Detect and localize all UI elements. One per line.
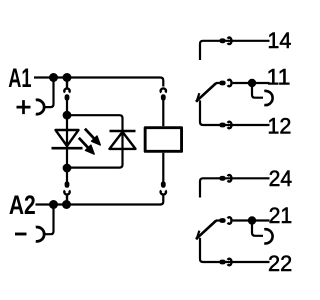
LED arrow 2 [79, 138, 94, 154]
plug connector socket (coil top) [161, 89, 166, 93]
plus sign [17, 100, 31, 114]
clamp terminal at A2 [36, 227, 44, 241]
svg-text:14: 14 [267, 28, 291, 53]
plug connector pin (line 22) [222, 260, 224, 265]
plug connector pin (coil bottom) [161, 184, 166, 186]
contact arm 11 [196, 83, 216, 102]
plug connector pin (line 24) [222, 176, 224, 181]
plug connector pin (line 12) [222, 123, 224, 128]
plug connector pin (line 21) [222, 218, 224, 223]
wire A1 dot1 down to clamp [44, 78, 53, 108]
plug connector pin (LED branch top) [65, 97, 70, 99]
svg-text:22: 22 [268, 251, 292, 276]
wire LED branch vertical [66, 99, 68, 182]
contact arm pivot tick [197, 93, 200, 102]
svg-text:12: 12 [267, 113, 291, 138]
plug connector pin (line 11) [222, 81, 224, 86]
wire contact 21 common line [216, 219, 270, 221]
junction dot line 21 [248, 216, 256, 224]
plug connector socket (line 14) [228, 37, 232, 44]
junction dot LED bottom [63, 164, 72, 173]
diode D2 cathode bar [110, 130, 136, 133]
minus sign [15, 233, 27, 236]
LED arrow 1 [85, 129, 100, 145]
wire 21 dot to clamp [252, 221, 263, 236]
svg-text:24: 24 [269, 166, 293, 191]
wire contact 22 line with stub [200, 238, 270, 262]
wire contact 24 line with stub [200, 178, 270, 197]
plug connector pin (coil top) [161, 97, 166, 99]
junction dot A2/clamp [49, 200, 58, 209]
wire A1 line to coil branch corner [34, 78, 163, 87]
junction dot A1/LED branch [63, 73, 72, 82]
svg-text:11: 11 [267, 65, 291, 90]
plug connector socket (LED branch bottom) [64, 190, 69, 204]
plug connector socket (line 21) [228, 217, 232, 224]
contact arm pivot tick (21) [197, 231, 200, 240]
plug connector pin (line 14) [222, 38, 224, 43]
junction dot A1/clamp [49, 73, 58, 82]
junction dot LED top [63, 111, 72, 120]
svg-text:A2: A2 [9, 190, 36, 220]
diode D2 triangle [110, 132, 136, 149]
LED D1 triangle [56, 130, 79, 146]
wire A2 line [36, 203, 162, 205]
wire 11 dot to clamp [252, 83, 263, 98]
svg-text:21: 21 [269, 203, 293, 228]
relay coil K1 [145, 128, 181, 152]
LED D1 cathode bar [52, 147, 83, 150]
junction dot line 11 [248, 79, 256, 87]
plug connector socket (line 12) [228, 122, 232, 129]
plug connector socket (line 24) [228, 175, 232, 182]
clamp terminal at 21 [264, 229, 272, 243]
wire parallel diode branch [67, 115, 123, 167]
clamp terminal at 11 [264, 91, 272, 105]
plug connector pin (LED branch bottom) [65, 184, 70, 186]
wire contact 12 line with stub [200, 100, 270, 125]
wire contact 11 common line [216, 82, 270, 84]
wire A2 dot1 down to clamp [44, 205, 53, 235]
wire contact 14 line with stub [200, 41, 270, 60]
svg-text:A1: A1 [8, 63, 31, 93]
contact arm 21 [196, 221, 216, 240]
wire coil feed [162, 99, 164, 126]
plug connector socket (line 11) [228, 80, 232, 87]
plug connector socket (coil bottom) [161, 190, 166, 194]
plug connector socket (LED branch top) [64, 78, 69, 93]
wire coil bottom [162, 153, 164, 182]
plug connector socket (line 22) [228, 259, 232, 266]
clamp terminal at A1 [36, 100, 44, 114]
junction dot A2/LED branch [62, 200, 71, 209]
